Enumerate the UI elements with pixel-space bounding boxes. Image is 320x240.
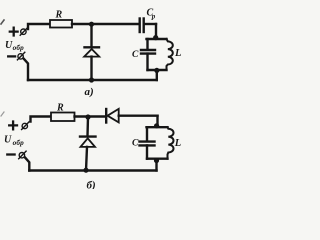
resistor R (b) [51, 113, 75, 122]
node diode bottom (b) [83, 168, 88, 173]
node diode bottom (a) [89, 77, 94, 82]
capacitor Cp (a) [140, 19, 156, 33]
svg-text:L: L [174, 48, 181, 59]
wire bottom-left corner b [25, 158, 29, 171]
page edge mark top-left [1, 20, 4, 24]
wire tank to bottom rail (b) [155, 159, 157, 171]
wire top-left corner b [31, 117, 52, 122]
wire bottom-left corner a [24, 59, 28, 80]
resistor R (a) [50, 20, 72, 28]
node tank bottom (b) [154, 158, 159, 163]
node tank top (b) [154, 123, 159, 128]
wire resistor to diode bar (b) [75, 115, 106, 117]
svg-text:C: C [132, 50, 139, 60]
node tank top (a) [153, 35, 158, 40]
wire tank to ground rail (a) [156, 70, 158, 80]
svg-text:C: C [132, 139, 139, 149]
wire bottom rail (a) [28, 79, 157, 81]
svg-text:p: p [151, 13, 156, 21]
wire tank top (a) [147, 38, 167, 40]
svg-text:обр: обр [13, 139, 25, 147]
capacitor C (b) [140, 127, 155, 159]
terminal circle + (b) [22, 122, 29, 130]
node diode top (a) [89, 22, 94, 27]
diode VD1 (b) vertical anode-down [80, 117, 96, 171]
wire tank top (b) [147, 126, 168, 128]
capacitor C (a) [141, 39, 155, 70]
label + (b) [9, 122, 17, 130]
svg-text:обр: обр [13, 44, 25, 52]
terminal circle - (a) [17, 52, 24, 60]
page edge mark left middle [1, 112, 4, 116]
svg-text:R: R [55, 10, 63, 21]
label - (b) [7, 153, 14, 155]
diode VD2 (b) horizontal cathode-left [106, 109, 157, 123]
label + (a) [10, 28, 18, 36]
node diode top (b) [85, 114, 90, 119]
wire bottom rail (b) [29, 169, 156, 171]
inductor L (a) [167, 39, 173, 70]
wire Cp down to tank (a) [155, 24, 157, 39]
svg-text:L: L [174, 138, 181, 149]
svg-text:б): б) [87, 180, 96, 190]
wire tank bottom (b) [147, 157, 168, 159]
wire resistor to Cp (a) [72, 23, 139, 25]
diode VD (a) anode-down [84, 24, 99, 80]
terminal circle - (b) [19, 151, 26, 159]
wire tank bottom (a) [148, 69, 167, 71]
svg-text:U: U [4, 135, 12, 146]
inductor L (b) [168, 127, 174, 159]
svg-text:а): а) [85, 86, 94, 98]
label - (a) [8, 55, 15, 57]
wire down to tank (b) [156, 116, 158, 127]
terminal circle + (a) [20, 28, 27, 36]
node tank bottom (a) [154, 68, 159, 73]
wire top-left corner a [28, 24, 50, 29]
svg-text:R: R [56, 103, 64, 114]
